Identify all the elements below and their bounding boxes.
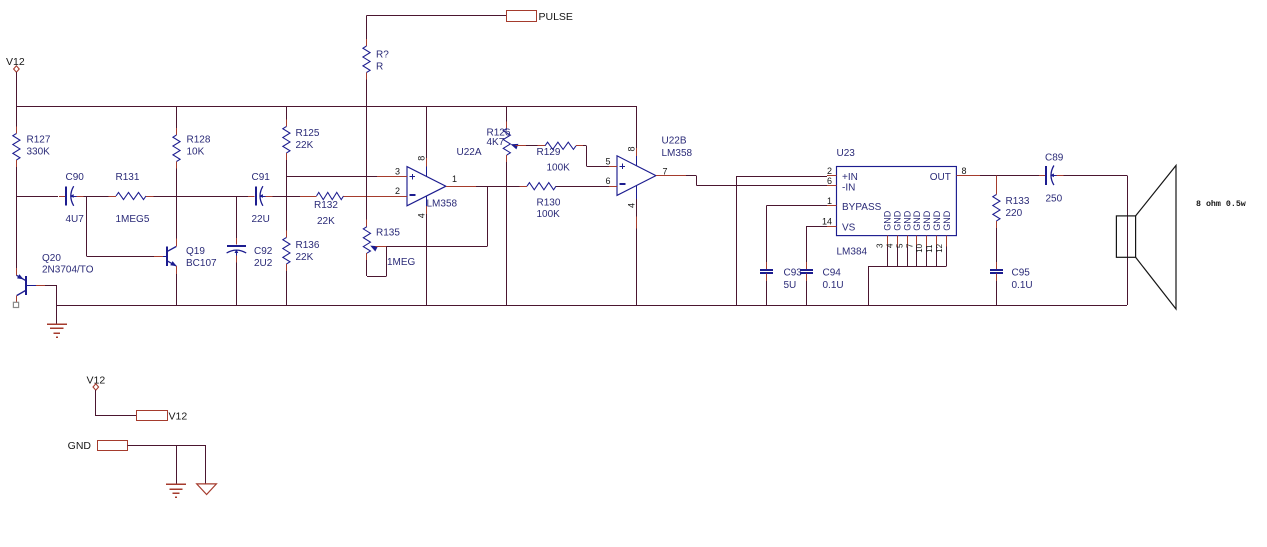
svg-text:22K: 22K [317,216,335,227]
svg-text:100K: 100K [547,163,571,174]
capacitor C89 [1039,175,1046,177]
svg-text:C91: C91 [252,172,271,183]
port V12 [137,411,168,421]
svg-text:C92: C92 [254,246,273,257]
svg-text:0.1U: 0.1U [823,280,844,291]
wire [686,175,696,177]
wire [286,160,288,196]
svg-text:VS: VS [842,223,856,234]
pin 5 stub [609,166,617,168]
wire [16,106,18,127]
resistor R126 (pot) [506,122,508,129]
svg-text:LM384: LM384 [837,247,868,258]
capacitor C91 [248,196,255,198]
svg-text:LM358: LM358 [662,148,693,159]
svg-text:R?: R? [376,50,389,61]
wire [236,263,238,305]
svg-text:8: 8 [627,146,637,151]
svg-text:22K: 22K [296,252,314,263]
wire [476,186,520,188]
wire [583,145,586,147]
wire [996,228,998,262]
svg-text:GND: GND [902,210,912,231]
wire [366,260,368,276]
ground [166,483,186,485]
pin 4 U22A [426,196,428,206]
svg-text:R132: R132 [314,200,338,211]
wire [205,445,207,484]
svg-text:GND: GND [942,210,952,231]
svg-text:2: 2 [395,186,400,196]
svg-text:Q20: Q20 [42,253,61,264]
svg-text:-IN: -IN [842,182,855,193]
svg-text:C90: C90 [66,172,85,183]
wire [556,186,609,188]
wire [248,195,250,197]
svg-text:GND: GND [68,440,92,452]
wire [95,390,97,416]
resistor R128 [176,128,178,135]
wire opamp +in [286,176,377,178]
pot R126 wiper [511,144,519,150]
wire [366,16,368,39]
pin 2 U23 [827,175,837,177]
op-amp U22A [407,167,446,206]
svg-text:7: 7 [905,243,914,248]
capacitor C92 [236,238,238,245]
wire gnd comb [868,266,947,268]
wire [86,196,88,256]
resistor R133 [996,175,998,194]
svg-text:7: 7 [663,166,668,176]
svg-text:12: 12 [935,243,944,252]
svg-text:3: 3 [395,167,400,177]
svg-text:U22B: U22B [662,136,687,147]
wire [176,445,178,484]
svg-text:R135: R135 [376,228,400,239]
svg-text:R: R [376,62,383,73]
svg-text:1MEG5: 1MEG5 [116,214,150,225]
svg-text:5U: 5U [784,280,797,291]
resistor R130 [520,186,528,188]
svg-text:BC107: BC107 [186,258,217,269]
svg-text:2N3704/TO: 2N3704/TO [42,265,94,276]
resistor R135 (pot) [366,220,368,227]
svg-text:6: 6 [827,176,832,186]
no-connect square [13,302,18,307]
svg-text:1: 1 [452,174,457,184]
svg-text:1: 1 [827,196,832,206]
svg-text:22K: 22K [296,140,314,151]
wire [387,246,488,248]
wire [766,205,827,207]
resistor R135 [366,220,368,227]
wire [16,72,18,106]
wire [506,106,508,122]
wire [286,196,300,198]
svg-text:R136: R136 [296,240,320,251]
svg-text:R128: R128 [187,135,211,146]
resistor R127 [16,127,18,134]
svg-text:GND: GND [912,210,922,231]
svg-text:4: 4 [417,213,427,218]
pin 7 stub [656,175,686,177]
svg-text:C93: C93 [784,268,803,279]
wire ground bus [57,305,1127,307]
svg-text:330K: 330K [27,147,51,158]
svg-text:14: 14 [822,216,832,226]
svg-text:GND: GND [922,210,932,231]
wire [16,267,18,269]
wire [176,106,178,128]
svg-text:2: 2 [827,166,832,176]
IC U23 box [837,167,957,236]
node PULSE wire [367,15,507,17]
svg-text:C95: C95 [1012,268,1031,279]
resistor R132 [309,196,317,198]
wire [1064,175,1128,177]
speaker LS1 [1116,166,1176,310]
svg-text:4K7: 4K7 [487,137,505,148]
svg-text:8 ohm 0.5w: 8 ohm 0.5w [1196,199,1246,209]
U23 gnd pins [887,236,889,247]
wire [526,145,538,147]
wire [766,281,768,305]
wire [980,175,996,177]
wire Q20 base [45,285,57,287]
pin 14 U23 [827,226,837,228]
wire [128,445,206,447]
wire [366,80,368,107]
svg-text:8: 8 [417,156,427,161]
svg-text:220: 220 [1006,208,1023,219]
svg-text:V12: V12 [169,411,188,423]
wire [636,229,638,305]
svg-text:R130: R130 [537,198,561,209]
capacitor C94 [806,262,808,270]
resistor R? [366,39,368,46]
svg-text:1MEG: 1MEG [387,257,416,268]
wire [806,226,827,228]
resistor R129 [538,145,546,147]
wire [176,274,178,305]
svg-text:11: 11 [925,244,934,253]
wire [1127,175,1129,305]
svg-text:R133: R133 [1006,196,1030,207]
svg-text:250: 250 [1046,194,1063,205]
svg-text:100K: 100K [537,209,561,220]
pin 3 stub [377,176,407,178]
svg-text:PULSE: PULSE [539,11,573,23]
svg-text:U22A: U22A [457,147,482,158]
wire [273,196,287,198]
svg-text:5: 5 [895,243,904,248]
svg-text:C94: C94 [823,268,842,279]
svg-text:OUT: OUT [930,172,951,183]
wire V12 rail [16,106,636,108]
pin 2 stub [377,196,407,198]
capacitor C90 [59,196,66,198]
svg-text:2U2: 2U2 [254,258,273,269]
svg-text:22U: 22U [252,214,270,225]
svg-text:R127: R127 [27,135,51,146]
pin 1 U23 [827,205,837,207]
pin 6 stub [609,186,617,188]
wire [286,106,288,120]
resistor R136 [286,231,288,238]
resistor R125 [286,120,288,127]
svg-text:U23: U23 [837,148,856,159]
svg-text:0.1U: 0.1U [1012,280,1033,291]
wire [286,271,288,305]
resistor R131 [109,196,117,198]
wire [996,281,998,305]
svg-text:4U7: 4U7 [66,214,85,225]
svg-text:GND: GND [932,210,942,231]
svg-text:+IN: +IN [842,172,858,183]
svg-text:4: 4 [627,203,637,208]
wire [806,281,808,305]
wire [176,169,178,197]
port PULSE [507,11,537,22]
pin 8 U22A [426,106,428,158]
wire [56,305,58,324]
wire [16,167,18,196]
wire [344,196,378,198]
pin 1 stub [446,186,476,188]
svg-text:10K: 10K [187,147,205,158]
wire [426,214,428,305]
capacitor C95 [996,262,998,270]
svg-text:C89: C89 [1045,153,1064,164]
pot R135 wiper [370,246,378,252]
svg-text:4: 4 [886,243,895,248]
svg-text:10: 10 [915,243,924,252]
svg-text:6: 6 [605,176,610,186]
wire [366,106,368,220]
svg-text:Q19: Q19 [186,246,205,257]
svg-text:LM358: LM358 [427,199,458,210]
svg-text:R125: R125 [296,128,320,139]
capacitor C93 [766,262,768,270]
op-amp U22B [617,156,656,196]
svg-text:8: 8 [962,166,967,176]
svg-text:3: 3 [876,243,885,248]
pin 8 U23 [956,175,980,177]
earth ground triangle [197,484,217,495]
svg-text:GND: GND [883,210,893,231]
wire [154,196,249,198]
wire [506,162,508,305]
wire [16,196,58,198]
svg-text:R131: R131 [116,172,140,183]
svg-text:GND: GND [892,210,902,231]
wire +IN / gnd column [737,176,828,178]
wire feedback [487,186,489,246]
pin 4 U22B [636,186,638,199]
wire [236,196,238,238]
ground [47,323,67,325]
transistor Q19 [166,247,168,266]
pin 6 U23 [827,185,837,187]
pin 8 U22B [636,106,638,148]
svg-text:R129: R129 [537,147,561,158]
node A wire [83,196,108,198]
svg-text:5: 5 [605,156,610,166]
svg-text:BYPASS: BYPASS [842,202,882,213]
transistor Q20 [16,268,18,275]
